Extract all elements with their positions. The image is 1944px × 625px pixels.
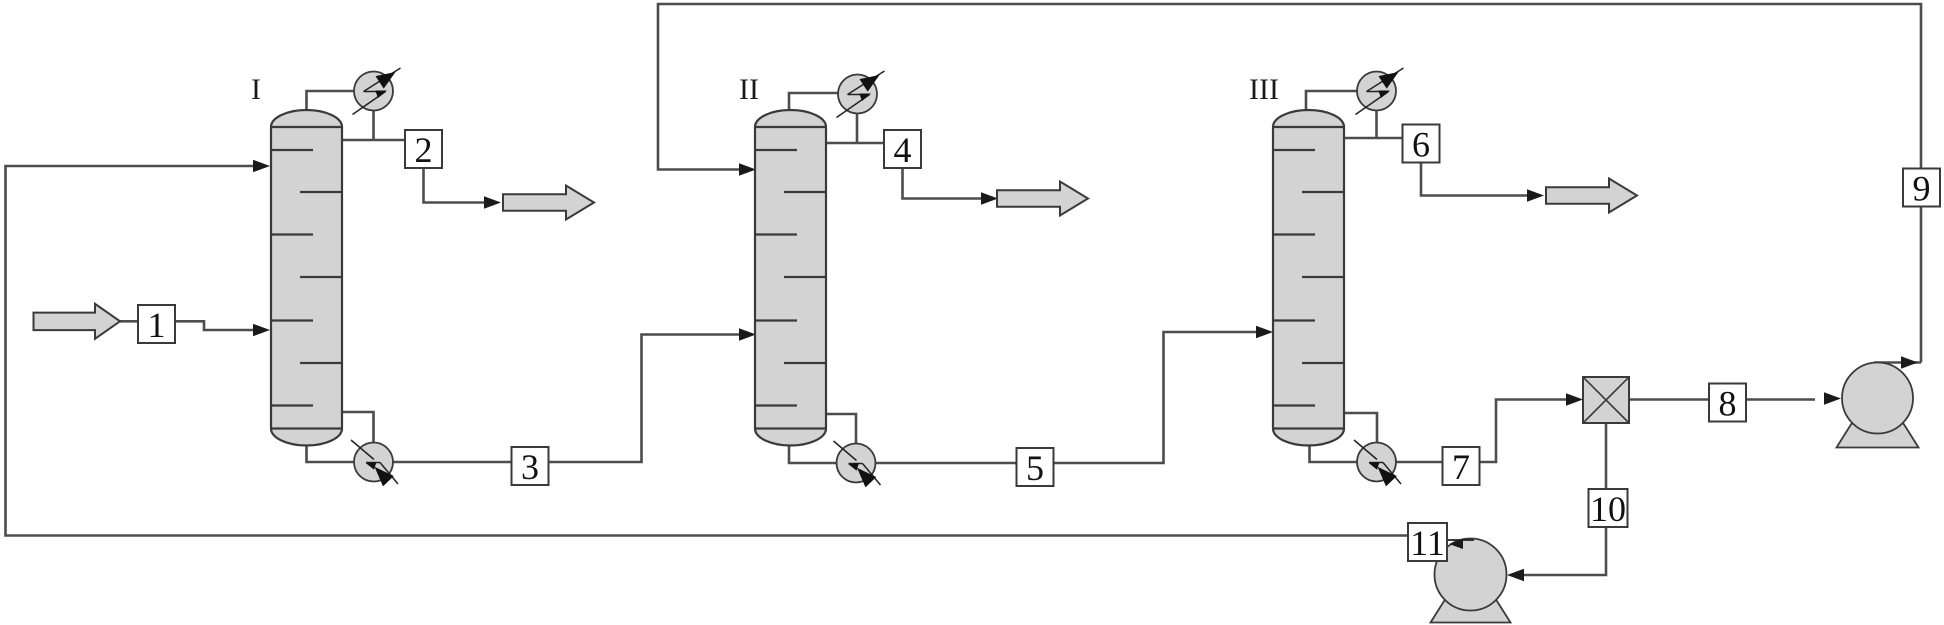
svg-text:1: 1 xyxy=(148,305,166,345)
svg-text:2: 2 xyxy=(415,130,433,170)
svg-text:4: 4 xyxy=(894,130,912,170)
svg-text:3: 3 xyxy=(521,447,539,487)
svg-text:III: III xyxy=(1249,73,1279,106)
svg-text:II: II xyxy=(739,73,759,106)
svg-text:11: 11 xyxy=(1410,523,1445,563)
svg-text:6: 6 xyxy=(1412,125,1430,165)
svg-text:5: 5 xyxy=(1026,448,1044,488)
svg-text:10: 10 xyxy=(1590,489,1626,529)
svg-text:I: I xyxy=(251,73,261,106)
svg-text:7: 7 xyxy=(1452,447,1470,487)
svg-text:9: 9 xyxy=(1913,169,1931,209)
svg-text:8: 8 xyxy=(1719,384,1737,424)
